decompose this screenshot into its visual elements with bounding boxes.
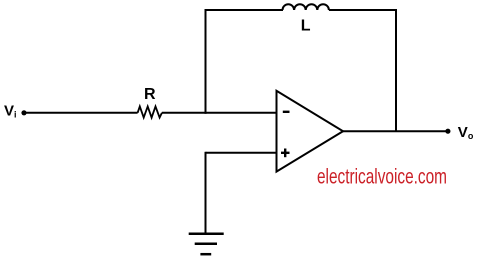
wire noninverting input horizontal [206, 152, 277, 154]
op-amp noninverting pin plus sign [281, 152, 290, 154]
wire feedback left vertical [205, 10, 207, 114]
svg-text:L: L [301, 18, 311, 35]
node Vo terminal [445, 129, 450, 134]
op-amp inverting pin minus sign [283, 111, 290, 113]
wire feedback top left segment [205, 9, 284, 11]
wire feedback right vertical [395, 10, 397, 131]
svg-text:Vi: Vi [4, 103, 17, 120]
resistor R [138, 106, 162, 117]
ground [189, 233, 224, 236]
op-amp U1 triangle [277, 91, 344, 172]
wire input left segment [24, 112, 138, 114]
wire feedback top right segment [329, 9, 397, 11]
wire input right segment to op-amp [162, 112, 277, 114]
svg-text:electricalvoice.com: electricalvoice.com [317, 166, 447, 189]
wire output [343, 130, 448, 132]
wire noninverting to ground vertical [205, 152, 207, 234]
node Vi terminal [21, 110, 26, 115]
svg-text:Vo: Vo [458, 124, 474, 141]
inductor L [283, 4, 329, 10]
svg-text:R: R [144, 86, 156, 103]
